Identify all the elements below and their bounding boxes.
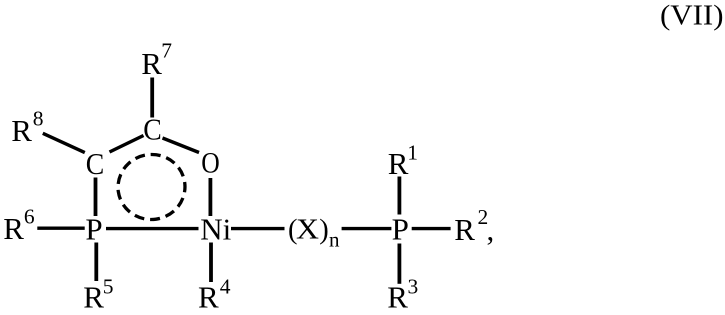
svg-text:n: n [329, 228, 340, 252]
svg-text:O: O [201, 147, 220, 180]
group (X)n [288, 214, 340, 251]
svg-text:(VII): (VII) [660, 0, 724, 32]
svg-text:R: R [454, 212, 475, 247]
label R2 with comma [454, 205, 494, 247]
label R7 [141, 39, 172, 82]
dashed aromaticity circle [114, 150, 189, 224]
svg-text:5: 5 [103, 275, 114, 299]
label R3 [387, 275, 418, 315]
bond P1-R5 [94, 243, 98, 282]
bond R7-C2 [150, 78, 154, 118]
svg-text:1: 1 [407, 141, 418, 165]
bond Ni-(X)n [231, 227, 285, 230]
bond R8-C1 [43, 133, 85, 152]
svg-text:,: , [487, 212, 495, 247]
label R1 [388, 141, 418, 182]
svg-text:R: R [3, 211, 24, 246]
svg-text:3: 3 [408, 275, 419, 299]
svg-text:7: 7 [161, 39, 172, 63]
label R8 [11, 107, 43, 149]
bond P2-R3 [397, 244, 401, 284]
svg-text:R: R [388, 146, 409, 181]
bond P2-R1 [397, 177, 401, 215]
bond R6-P1 [37, 226, 84, 229]
svg-text:C: C [143, 112, 162, 147]
bond C2-O [163, 138, 200, 153]
svg-text:8: 8 [33, 107, 44, 131]
svg-text:Ni: Ni [200, 212, 231, 247]
bond P2-R2 [412, 227, 451, 230]
bond (X)n-P2 [342, 227, 392, 230]
label R4 [198, 275, 231, 315]
label R6 [3, 205, 35, 247]
svg-text:): ) [319, 214, 329, 245]
svg-text:R: R [83, 280, 104, 311]
svg-text:X: X [296, 215, 319, 246]
svg-text:R: R [198, 280, 219, 311]
bond C1-P1 [94, 178, 98, 217]
svg-text:P: P [85, 212, 102, 247]
svg-text:R: R [11, 113, 32, 148]
bond Ni-R4 [209, 243, 213, 283]
svg-text:6: 6 [24, 205, 35, 229]
svg-text:R: R [141, 46, 162, 81]
bond O-Ni [208, 178, 212, 216]
svg-text:P: P [392, 212, 409, 247]
svg-text:R: R [387, 280, 408, 311]
svg-text:C: C [86, 146, 105, 181]
bond C1-C2 [110, 136, 144, 153]
svg-text:4: 4 [220, 275, 231, 299]
label R5 [83, 275, 113, 315]
bond P1-Ni [106, 227, 199, 230]
